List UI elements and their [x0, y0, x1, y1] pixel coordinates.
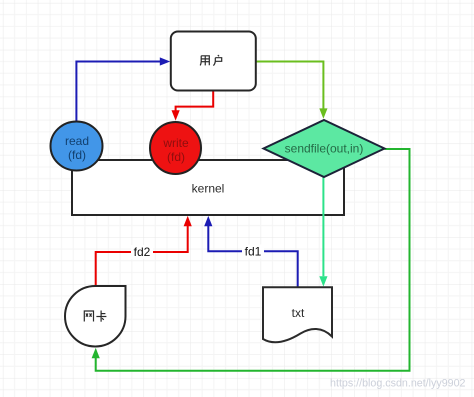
svg-text:(fd): (fd): [167, 150, 185, 164]
user box: [171, 32, 256, 91]
svg-text:fd2: fd2: [134, 245, 151, 259]
svg-text:txt: txt: [292, 306, 305, 320]
wire blue read->user: [76, 62, 160, 122]
svg-text:kernel: kernel: [192, 181, 225, 195]
glyph 用: [200, 56, 209, 66]
label fd1: [242, 245, 264, 259]
kernel box: [72, 160, 344, 215]
label fd2: [131, 245, 153, 259]
svg-text:(fd): (fd): [68, 148, 86, 162]
wire red user->write: [176, 91, 214, 111]
wire green sendfile->netcard: [96, 149, 410, 371]
glyph 网: [84, 311, 93, 322]
wire green user->sendfile: [256, 62, 324, 109]
svg-text:https://blog.csdn.net/lyy9902: https://blog.csdn.net/lyy9902: [330, 378, 466, 390]
txt document: [263, 287, 332, 342]
svg-text:sendfile(out,in): sendfile(out,in): [285, 142, 364, 156]
svg-text:read: read: [65, 134, 89, 148]
wire blue fd1 txt->kernel: [208, 226, 297, 287]
glyph 户: [213, 55, 221, 66]
svg-text:fd1: fd1: [245, 245, 262, 259]
wire mint sendfile->txt: [322, 177, 324, 276]
netcard shape: [65, 286, 126, 347]
sendfile diamond: [264, 120, 385, 177]
glyph 卡: [96, 311, 106, 322]
read circle: [51, 122, 103, 171]
write circle: [150, 122, 201, 174]
svg-text:write: write: [162, 136, 189, 150]
wire red fd2 netcard->kernel: [96, 226, 188, 286]
